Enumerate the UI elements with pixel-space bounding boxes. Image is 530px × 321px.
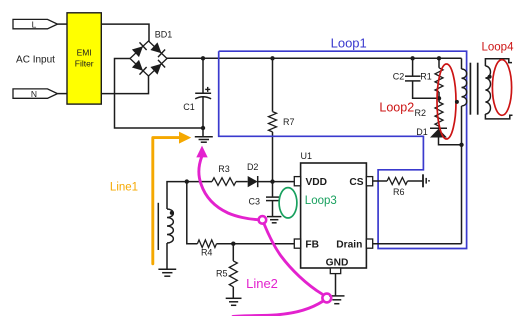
wire EMI top output to bridge top vertex [101,24,149,41]
svg-text:C1: C1 [183,102,195,112]
signal ground (bar style) at R6 [423,174,429,187]
wire top DC rail [167,57,462,59]
wire CS pin to R6 [373,180,387,182]
node N (neutral input terminal) [13,89,58,99]
wire R7 to VDD node [272,132,274,182]
junction node at C1 top [201,56,205,60]
wire bridge left vertex to bottom rail [115,59,204,129]
pin CS of U1 [349,177,372,188]
Loop3 annotation ellipse (green) [279,188,297,218]
label R1 [420,72,432,82]
label C1 [183,102,195,112]
wire secondary top stub [485,59,512,66]
label R5 [216,269,228,279]
svg-text:GND: GND [326,257,349,268]
svg-text:Loop4: Loop4 [482,42,515,54]
label U1 [301,151,313,161]
wire L to EMI filter [58,23,68,25]
svg-text:BD1: BD1 [155,30,173,40]
transformer auxiliary winding [167,209,173,243]
capacitor C3 (VDD decoupling) [266,182,280,217]
diode D2 [248,176,258,187]
svg-text:R6: R6 [393,187,405,197]
label R2 [415,108,427,118]
EMI filter block [67,13,101,104]
diode D1 (clamp) [430,128,462,145]
Loop4 annotation ellipse (red) [492,60,511,116]
primary polarity dot [455,100,459,104]
transformer core bars [470,63,477,115]
secondary polarity dot [488,75,492,79]
svg-text:Drain: Drain [336,240,362,251]
junction node VDD/C3/R7 [270,179,274,183]
svg-text:L: L [32,19,37,29]
wire GND pin to ground [335,274,337,296]
wire aux bottom to ground [166,243,168,269]
svg-text:Line1: Line1 [110,182,138,194]
svg-text:C3: C3 [249,196,261,206]
pin Drain of U1 [336,239,372,251]
junction node aux/R3/R4 [185,179,189,183]
svg-text:Loop1: Loop1 [331,35,367,50]
wire aux node down to R4 [187,182,198,244]
label R3 [218,164,230,174]
svg-text:Loop3: Loop3 [305,195,337,207]
svg-text:R1: R1 [420,72,432,82]
svg-text:U1: U1 [301,151,313,161]
wire rail to R7 [272,58,274,111]
resistor R2 (snubber) [435,98,443,128]
svg-text:AC Input: AC Input [16,55,55,66]
svg-text:R3: R3 [218,164,230,174]
label Line1 [110,182,138,194]
svg-text:EMI: EMI [77,48,92,58]
resistor R3 [212,178,236,186]
wire R4 to FB pin [217,243,295,245]
label Loop1 [331,35,367,50]
bridge rectifier BD1 [130,41,167,76]
svg-text:N: N [31,89,37,99]
junction node D1-drain [459,143,463,147]
capacitor C2 (snubber) [405,58,439,98]
svg-text:CS: CS [349,177,363,188]
svg-text:R4: R4 [201,248,213,258]
svg-text:Filter: Filter [75,59,94,69]
wire secondary bottom stub [485,114,512,119]
transformer primary winding [462,69,467,106]
svg-text:Line2: Line2 [246,276,278,291]
label C3 [249,196,261,206]
label AC Input [16,55,55,66]
svg-text:R7: R7 [283,117,295,127]
wire aux top to VDD net [167,182,212,209]
label BD1 [155,30,173,40]
svg-text:R5: R5 [216,269,228,279]
resistor R5 [229,244,237,299]
svg-text:FB: FB [305,240,319,251]
Loop2 annotation ellipse (red) [437,64,456,139]
wire R6 to signal ground [408,180,423,182]
ground under R5 [226,298,242,305]
op-amp U1 controller IC body [301,163,367,268]
label D1 [416,127,428,137]
node L (line input terminal) [13,19,58,29]
junction node C2/R1 bottom [437,96,441,100]
ground under aux winding [158,269,176,276]
Line2 annotation (magenta) [196,146,331,317]
svg-text:C2: C2 [393,72,405,82]
aux winding core bar [157,203,159,250]
label Line2 [246,276,278,291]
ground under C1 [195,137,213,142]
wire N to EMI filter [58,93,68,95]
ground under GND pin [329,296,344,304]
aux polarity dot [170,211,174,215]
junction node rail-R1 [437,56,441,60]
label R4 [201,248,213,258]
junction node R4/R5/FB [231,242,235,246]
svg-text:D2: D2 [247,162,259,172]
pin VDD of U1 [294,177,327,188]
ground under C3 [267,217,281,223]
junction node rail-C2 [410,56,414,60]
pin GND of U1 [326,257,349,273]
junction node rail-R7 [270,56,274,60]
Line1 annotation (orange) [153,132,191,264]
svg-text:D1: D1 [416,127,428,137]
label Loop4 [482,42,515,54]
wire D2 to VDD pin [258,181,295,183]
capacitor C1 (bulk electrolytic) [195,58,211,137]
label C2 [393,72,405,82]
wire primary bottom to drain riser [461,106,463,244]
svg-text:R2: R2 [415,108,427,118]
resistor R7 [269,112,277,132]
resistor R1 (snubber) [435,58,443,98]
label Loop2 [379,101,414,115]
label R6 [393,187,405,197]
label D2 [247,162,259,172]
junction node at C1 bottom [201,126,205,130]
svg-text:VDD: VDD [306,177,328,188]
Loop1 annotation outline (blue) [219,51,467,248]
label Loop3 [305,195,337,207]
transformer secondary winding [485,66,490,114]
wire EMI bottom output to bridge bottom vertex [101,76,148,94]
label R7 [283,117,295,127]
svg-text:Loop2: Loop2 [379,101,414,115]
wire R3 to D2 [236,181,248,183]
resistor R4 [197,240,216,248]
resistor R6 [387,178,407,185]
pin FB of U1 [294,239,319,251]
wire Drain pin to transformer [373,243,462,245]
wire rail to primary [461,58,463,69]
